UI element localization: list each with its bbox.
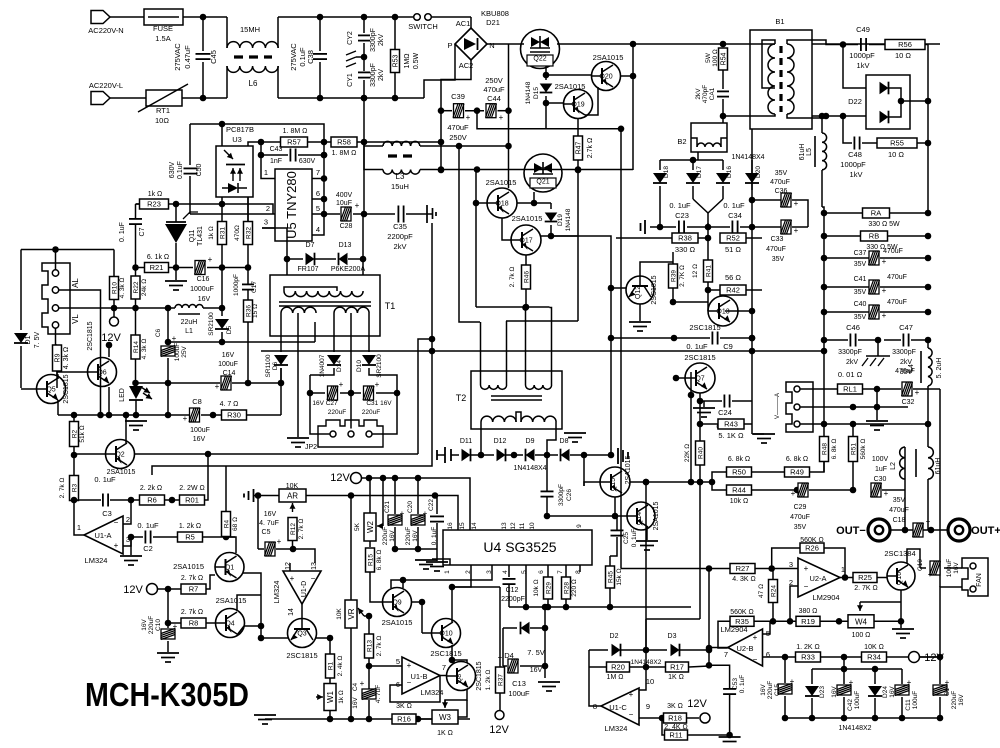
resistor R31 1k col [221, 204, 223, 222]
transistor Q12 2SC1815 [626, 276, 654, 304]
capacitor C27 220uF [310, 392, 325, 394]
wire Q12 collector/emitter [640, 262, 673, 276]
svg-text:250V: 250V [485, 76, 503, 85]
svg-text:2SC1815: 2SC1815 [689, 323, 720, 332]
capacitor C48 1000pF 1kV [843, 116, 852, 143]
svg-text:JP2: JP2 [305, 444, 317, 451]
inductor L2 [900, 447, 905, 479]
svg-text:−: − [629, 710, 634, 719]
svg-text:R14: R14 [133, 341, 140, 353]
wire lower bus y116 [723, 115, 750, 117]
svg-text:3300pF: 3300pF [838, 349, 862, 356]
zener D1 7.5V [20, 250, 22, 331]
capacitor C7 0.1uF [136, 203, 140, 205]
svg-text:1K Ω: 1K Ω [668, 674, 684, 681]
svg-text:16V: 16V [530, 667, 543, 674]
T1 primary winding [284, 291, 363, 297]
svg-text:2kV: 2kV [394, 242, 407, 251]
svg-text:16V: 16V [352, 697, 359, 709]
capacitor C40 470uF 35V [821, 309, 828, 316]
svg-text:PC817B: PC817B [226, 125, 254, 134]
svg-text:16V: 16V [889, 686, 896, 698]
wire bottom rail [785, 717, 940, 719]
svg-text:AC220V-N: AC220V-N [88, 26, 123, 35]
capacitor C46 3300pF [821, 337, 828, 344]
wire L3 top right [420, 145, 509, 147]
svg-text:10uF: 10uF [336, 200, 352, 207]
zener D4 7.5V [503, 627, 517, 629]
svg-text:1N4148X4: 1N4148X4 [731, 154, 764, 161]
resistor R14 4.3k [135, 308, 137, 335]
wire y415 bus [58, 414, 189, 416]
resistor R13 2.7k [366, 613, 373, 620]
svg-text:R25: R25 [858, 573, 872, 582]
svg-text:R27: R27 [736, 564, 750, 573]
svg-text:SWITCH: SWITCH [408, 22, 438, 31]
svg-text:Q6: Q6 [97, 370, 106, 377]
wire B2 left down [697, 152, 699, 160]
resistor R32 470 col [247, 197, 249, 222]
svg-text:2SA1015: 2SA1015 [653, 501, 660, 530]
svg-text:R7: R7 [189, 585, 199, 594]
svg-text:D3: D3 [668, 633, 677, 640]
svg-text:+: + [208, 255, 213, 264]
svg-text:D21: D21 [486, 18, 500, 27]
transformer T1 [270, 275, 380, 336]
svg-text:+: + [791, 489, 796, 498]
svg-text:2: 2 [126, 515, 130, 524]
wire R27 line [621, 568, 730, 570]
svg-text:R51: R51 [851, 443, 858, 455]
svg-text:+: + [926, 517, 931, 526]
svg-text:2. 7K Ω: 2. 7K Ω [679, 265, 686, 287]
svg-text:R30: R30 [227, 411, 241, 420]
svg-text:Q2: Q2 [115, 452, 124, 459]
svg-text:R22: R22 [133, 281, 140, 293]
svg-text:C45: C45 [209, 50, 218, 64]
svg-text:1000pF: 1000pF [849, 51, 875, 60]
capacitor C5 4.7uF 16V [257, 496, 259, 550]
wire y249 bus [21, 249, 114, 251]
svg-text:16V: 16V [264, 511, 277, 518]
svg-text:47 Ω: 47 Ω [758, 584, 765, 598]
svg-text:R43: R43 [724, 420, 738, 429]
wire Q9 emitter-collector verticals [391, 580, 403, 588]
wire x611 bus [551, 236, 611, 455]
svg-text:100uF: 100uF [508, 689, 530, 698]
W2 wiper [382, 478, 384, 526]
thyristor Q22 [521, 30, 560, 69]
connector V-A [786, 382, 813, 432]
wire R23 line y204 [169, 204, 274, 214]
svg-text:L1: L1 [185, 328, 193, 335]
svg-text:12 Ω: 12 Ω [692, 264, 699, 278]
svg-text:1000pF: 1000pF [840, 160, 866, 169]
capacitor C45 0.47uF [202, 17, 204, 51]
svg-text:R53: R53 [393, 54, 400, 67]
wire B1 pin to C49 [812, 40, 843, 45]
capacitor C35 2200pF 2kV [397, 206, 399, 223]
svg-text:100uF: 100uF [912, 691, 919, 709]
wire Q3 base bus [261, 637, 288, 639]
svg-text:470uF: 470uF [790, 514, 810, 521]
terminal OUT- [868, 519, 890, 541]
svg-text:B2: B2 [677, 137, 686, 146]
svg-text:Q1: Q1 [225, 565, 234, 572]
wire Q8 emitter to W3 [445, 689, 467, 707]
svg-text:16V: 16V [958, 694, 965, 706]
svg-text:L2: L2 [890, 462, 897, 470]
svg-text:56 Ω: 56 Ω [725, 273, 741, 282]
fuse FUSE 1.5A [110, 16, 144, 18]
svg-text:RB: RB [869, 232, 879, 241]
svg-text:R47: R47 [576, 141, 583, 154]
svg-text:+: + [277, 537, 282, 546]
wire x752 rail [751, 129, 753, 434]
svg-text:6: 6 [538, 570, 545, 574]
cap to gnd left of D11 [437, 454, 445, 456]
svg-text:220uF: 220uF [951, 691, 958, 709]
svg-text:C22: C22 [428, 499, 435, 511]
VR wiper arrow [364, 615, 369, 617]
capacitor C29 470uF 35V [798, 483, 808, 497]
svg-text:D2: D2 [610, 633, 619, 640]
wire x928 from R56 down [927, 101, 929, 143]
wire Q22 gate down [545, 66, 547, 75]
svg-text:4. 7 Ω: 4. 7 Ω [220, 401, 239, 408]
op-amp U2-B LM2904 [728, 629, 763, 666]
svg-text:Q19: Q19 [571, 102, 584, 109]
wire rail through Q22 [557, 43, 633, 45]
wire x709 bus [708, 569, 710, 666]
svg-text:R13: R13 [367, 640, 374, 652]
svg-text:C43: C43 [270, 146, 283, 153]
diode D5 SR2100 [221, 308, 223, 316]
svg-text:1N4148: 1N4148 [525, 81, 532, 104]
svg-text:R17: R17 [670, 663, 684, 672]
svg-text:15uH: 15uH [391, 182, 409, 191]
svg-text:35V: 35V [775, 170, 788, 177]
svg-text:R52: R52 [726, 234, 740, 243]
svg-text:RT1: RT1 [156, 106, 170, 115]
svg-text:13: 13 [501, 522, 508, 530]
wire x364 bus [363, 98, 365, 214]
svg-text:D13: D13 [339, 242, 352, 249]
svg-text:C33: C33 [771, 236, 784, 243]
svg-text:1. 2k Ω: 1. 2k Ω [179, 523, 201, 530]
svg-text:RA: RA [871, 209, 881, 218]
capacitor C1 220uF [939, 657, 941, 684]
svg-text:P: P [447, 41, 452, 50]
resistor R2 51k [73, 415, 75, 421]
wire Q13 base [707, 310, 709, 312]
wire Q17 emitter to R46 [525, 255, 527, 265]
svg-text:C20: C20 [407, 501, 414, 513]
chassis stub [424, 213, 432, 215]
wire C44 bus down to Q18 [508, 111, 510, 146]
svg-text:16V: 16V [389, 530, 396, 542]
diode D15 1N4148 [545, 75, 547, 80]
svg-text:C25: C25 [623, 532, 630, 544]
svg-text:C3: C3 [102, 509, 112, 518]
svg-text:R42: R42 [726, 286, 740, 295]
svg-text:7. 5V: 7. 5V [34, 332, 41, 349]
svg-text:U1-D: U1-D [301, 581, 308, 597]
transistor Q13 2SC1815 [708, 296, 738, 326]
svg-text:15k Ω: 15k Ω [616, 568, 623, 585]
capacitor C20 220uF 16V [417, 478, 419, 514]
wire U1-C output x589 [589, 650, 601, 706]
svg-text:C1: C1 [944, 687, 951, 696]
svg-text:D5: D5 [226, 325, 233, 334]
wire 12V line y478 [362, 478, 471, 530]
svg-text:4. 3K Ω: 4. 3K Ω [732, 576, 756, 583]
wire U3 pins [221, 124, 223, 146]
ground Q12 [629, 321, 651, 323]
svg-text:OUT+: OUT+ [971, 525, 1000, 537]
wire [183, 16, 227, 18]
svg-text:D10: D10 [356, 360, 363, 372]
svg-text:68 Ω: 68 Ω [232, 517, 239, 531]
svg-text:100 Ω: 100 Ω [852, 632, 871, 639]
svg-text:220uF: 220uF [328, 409, 346, 416]
resistor R11 2.4K [662, 718, 664, 735]
wire W3 right [458, 700, 467, 717]
svg-text:3: 3 [789, 560, 793, 569]
wire Q12 base from x611 [611, 287, 626, 289]
svg-text:100uF: 100uF [218, 361, 238, 368]
resistor R39 2.7K [672, 237, 674, 239]
svg-text:35V: 35V [854, 314, 867, 321]
wire R4 top to bus [225, 466, 227, 487]
svg-text:12V: 12V [123, 584, 143, 596]
wire U5 pin2 [190, 213, 275, 215]
cap to gnd right of D8 [617, 448, 619, 464]
svg-text:U2-A: U2-A [809, 574, 826, 583]
svg-text:12: 12 [285, 562, 292, 570]
svg-text:R33: R33 [801, 653, 815, 662]
svg-text:D11: D11 [460, 438, 472, 445]
svg-text:C46: C46 [846, 323, 860, 332]
wire top feedback loop [190, 124, 324, 142]
svg-text:2kV: 2kV [846, 359, 858, 366]
svg-text:1MΩ: 1MΩ [404, 54, 411, 69]
op-amp U1-B LM324 [402, 657, 440, 694]
resistor R10 4.3k [113, 250, 115, 278]
svg-text:35V: 35V [794, 524, 807, 531]
capacitor C25 0.1uF [616, 515, 618, 517]
resistor R22 24k [135, 268, 137, 277]
diode D20 [751, 170, 753, 190]
svg-text:10k Ω: 10k Ω [533, 579, 540, 596]
svg-text:L6: L6 [249, 79, 258, 88]
svg-text:470uF: 470uF [887, 274, 907, 281]
svg-text:L5: L5 [806, 148, 813, 156]
wire Q2 vertical [125, 415, 127, 443]
svg-text:12V: 12V [489, 724, 509, 736]
svg-text:CA1: CA1 [709, 87, 716, 100]
svg-text:Q3: Q3 [297, 631, 306, 638]
wire pin3 gnd stub [130, 537, 132, 555]
wire y321 bus to T2 [506, 320, 578, 322]
resistor R56 10 [885, 40, 925, 50]
svg-text:Q13: Q13 [716, 309, 729, 316]
svg-text:D17: D17 [696, 166, 703, 178]
capacitor C4 4.7uF [368, 666, 370, 689]
svg-text:470uF: 470uF [895, 368, 915, 375]
wire Q13 emitter [673, 301, 708, 303]
svg-text:C10: C10 [155, 619, 162, 631]
svg-text:Q16: Q16 [896, 572, 903, 585]
svg-text:470uF: 470uF [770, 179, 790, 186]
svg-text:2kV: 2kV [378, 34, 385, 46]
svg-text:275VAC: 275VAC [289, 43, 298, 71]
wire Q17 base to Q18 [502, 218, 511, 240]
svg-text:0. 1uF: 0. 1uF [686, 342, 708, 351]
terminal 12V right [908, 656, 940, 658]
svg-text:7: 7 [316, 168, 320, 177]
svg-text:CY1: CY1 [347, 73, 354, 87]
svg-text:LM2904: LM2904 [720, 625, 747, 634]
svg-text:R2: R2 [72, 429, 79, 438]
svg-text:C12: C12 [506, 587, 519, 594]
capacitor C50 0.1uF 630V [189, 124, 191, 165]
svg-text:+: + [629, 690, 634, 699]
svg-text:R11: R11 [669, 731, 682, 740]
svg-text:25V: 25V [181, 346, 188, 358]
svg-text:2. 2W Ω: 2. 2W Ω [179, 485, 204, 492]
wire x633 collector bus down [632, 44, 634, 170]
svg-text:AL: AL [71, 278, 80, 288]
svg-text:560K Ω: 560K Ω [730, 609, 754, 616]
svg-text:2SA1015: 2SA1015 [173, 562, 204, 571]
svg-text:Q11: Q11 [189, 230, 196, 243]
svg-text:10Ω: 10Ω [155, 116, 169, 125]
wire U2-B pin6 [763, 656, 786, 658]
AR line y495 [262, 495, 279, 497]
svg-text:C24: C24 [718, 408, 732, 417]
svg-text:1K Ω: 1K Ω [437, 730, 453, 737]
wire y129 bus [545, 128, 621, 130]
svg-text:2. 7k Ω: 2. 7k Ω [376, 635, 383, 656]
svg-text:100 Ω: 100 Ω [712, 49, 719, 67]
wire pin3 line y580 [403, 565, 492, 580]
svg-text:3300pF: 3300pF [558, 484, 565, 506]
svg-text:B1: B1 [775, 17, 784, 26]
svg-text:11: 11 [519, 522, 526, 529]
svg-text:275VAC: 275VAC [173, 43, 182, 71]
svg-text:100V: 100V [872, 456, 889, 463]
svg-text:10 Ω: 10 Ω [895, 51, 911, 60]
svg-text:+: + [804, 564, 809, 573]
svg-text:C23: C23 [675, 211, 689, 220]
chassis ground mid [877, 340, 879, 356]
svg-text:5. 1K Ω: 5. 1K Ω [718, 431, 744, 440]
svg-text:6. 8k Ω: 6. 8k Ω [831, 438, 838, 459]
resistor R40 22K [699, 424, 701, 441]
svg-text:D24: D24 [882, 686, 889, 698]
svg-text:R31: R31 [220, 227, 227, 239]
transistor Q2 2SA1015 [106, 440, 135, 469]
svg-text:22K Ω: 22K Ω [684, 444, 691, 462]
svg-text:16V: 16V [193, 436, 206, 443]
wire x940 fan rail [939, 389, 941, 587]
svg-text:R19: R19 [801, 617, 815, 626]
svg-text:R26: R26 [805, 544, 819, 553]
wire Q6 emitter [108, 387, 110, 415]
svg-text:10K Ω: 10K Ω [864, 644, 884, 651]
svg-text:2.7k Ω: 2.7k Ω [587, 138, 594, 158]
svg-text:3300pF: 3300pF [370, 28, 377, 52]
svg-text:0. 1uF: 0. 1uF [739, 675, 746, 693]
svg-text:LM324: LM324 [605, 724, 628, 733]
wire U1-B pin6 [390, 676, 440, 702]
rectifier D22 double diode [866, 75, 910, 129]
IC U5 TNY280 [275, 169, 312, 241]
svg-text:R1: R1 [328, 661, 335, 670]
wire snubber to T1 [362, 214, 364, 259]
svg-text:P6KE200A: P6KE200A [331, 266, 366, 273]
svg-text:R34: R34 [867, 653, 881, 662]
resistor R36 15 [244, 300, 253, 322]
svg-text:SR1100: SR1100 [265, 354, 272, 377]
svg-text:+: + [907, 678, 912, 687]
svg-text:D22: D22 [848, 97, 862, 106]
ground near T2 [564, 432, 586, 434]
capacitor C14 row [136, 382, 221, 384]
wire Q10 collector to pin2 line [451, 587, 453, 622]
resistor R38 330 [616, 237, 672, 239]
resistor R51 560k [852, 424, 854, 436]
svg-text:D15: D15 [533, 87, 540, 99]
resistor R27 4.3K [730, 564, 755, 574]
svg-text:+: + [339, 380, 344, 389]
svg-text:0.1uF: 0.1uF [177, 161, 184, 179]
op-amp U2-A LM2904 [798, 558, 840, 597]
resistor R3 2.7k [73, 455, 75, 475]
svg-text:220uF: 220uF [148, 616, 155, 634]
svg-text:16V: 16V [198, 296, 211, 303]
svg-text:220uF: 220uF [405, 527, 412, 545]
svg-text:1N4148: 1N4148 [565, 208, 572, 231]
svg-text:35V: 35V [772, 256, 785, 263]
svg-text:C15: C15 [774, 684, 781, 696]
wire pin10 col [639, 619, 646, 690]
svg-text:R38: R38 [678, 234, 692, 243]
svg-text:35V: 35V [854, 261, 867, 268]
svg-text:220uF: 220uF [382, 527, 389, 545]
svg-text:1.5A: 1.5A [155, 34, 170, 43]
transistor Q9 2SA1015 [383, 588, 412, 617]
svg-text:1N4148X4: 1N4148X4 [513, 465, 546, 472]
svg-text:R41: R41 [706, 265, 713, 277]
thermistor RT1 10 [110, 97, 146, 99]
svg-text:RL1: RL1 [843, 385, 857, 394]
svg-text:470uF: 470uF [483, 85, 505, 94]
svg-text:2SA1015: 2SA1015 [486, 178, 517, 187]
svg-text:8: 8 [575, 570, 582, 574]
wire top rail [278, 16, 413, 18]
resistor R4 68 [222, 512, 231, 537]
transistor Q8 2SC1815 [447, 662, 476, 691]
svg-text:U1-A: U1-A [94, 531, 111, 540]
svg-text:+: + [423, 509, 428, 518]
svg-text:1000uF: 1000uF [190, 286, 214, 293]
svg-text:C34: C34 [728, 211, 742, 220]
wire bridge P to rail [424, 44, 455, 98]
wire x824 rail from L5 [822, 207, 824, 424]
wire FAN pin2 down [940, 587, 962, 657]
